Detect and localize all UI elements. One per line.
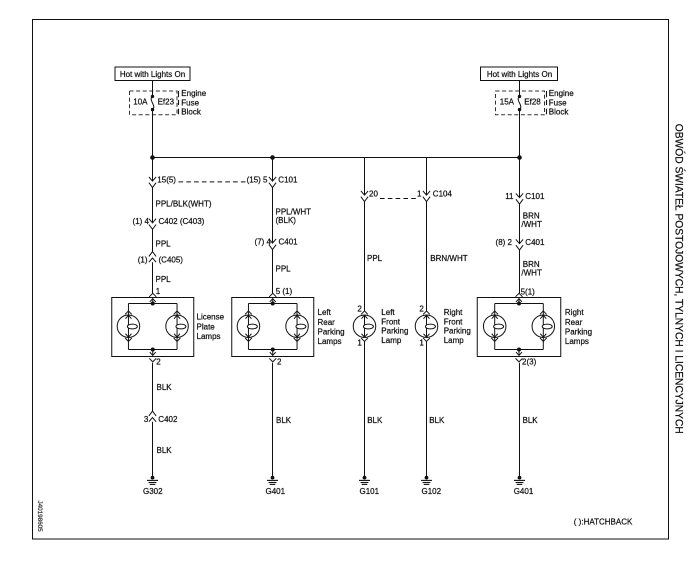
svg-text:Left: Left xyxy=(381,308,395,317)
svg-text:2: 2 xyxy=(277,358,282,367)
svg-text:(7) 4: (7) 4 xyxy=(255,237,272,246)
svg-text:Rear: Rear xyxy=(565,318,583,327)
svg-text:Engine: Engine xyxy=(181,89,206,98)
svg-text:15(5): 15(5) xyxy=(157,175,176,184)
svg-text:OBWÓD ŚWIATEŁ POSTOJOWYCH, TYL: OBWÓD ŚWIATEŁ POSTOJOWYCH, TYLNYCH I LIC… xyxy=(673,124,686,434)
svg-text:C401: C401 xyxy=(279,237,299,246)
svg-text:G401: G401 xyxy=(514,487,534,496)
svg-text:C401: C401 xyxy=(525,238,545,247)
svg-text:2(3): 2(3) xyxy=(522,358,537,367)
svg-text:PPL: PPL xyxy=(156,275,172,284)
svg-text:PPL: PPL xyxy=(276,265,292,274)
svg-text:(15) 5: (15) 5 xyxy=(247,175,268,184)
svg-text:BLK: BLK xyxy=(367,416,383,425)
svg-text:BLK: BLK xyxy=(523,416,539,425)
svg-text:C101: C101 xyxy=(525,192,545,201)
svg-text:G101: G101 xyxy=(360,487,380,496)
svg-text:Ef28: Ef28 xyxy=(524,98,541,107)
svg-text:(8) 2: (8) 2 xyxy=(496,238,513,247)
svg-text:PPL: PPL xyxy=(367,254,383,263)
svg-text:PPL: PPL xyxy=(156,239,172,248)
svg-text:Lamps: Lamps xyxy=(197,332,221,341)
svg-text:BLK: BLK xyxy=(157,383,173,392)
svg-text:Parking: Parking xyxy=(381,327,408,336)
svg-text:BRN/WHT: BRN/WHT xyxy=(430,254,467,263)
svg-text:/WHT: /WHT xyxy=(521,220,542,229)
svg-text:(C405): (C405) xyxy=(159,255,184,264)
svg-text:1: 1 xyxy=(156,287,161,296)
svg-text:Fuse: Fuse xyxy=(549,98,567,107)
svg-text:2: 2 xyxy=(419,304,424,313)
svg-text:PPL/BLK(WHT): PPL/BLK(WHT) xyxy=(156,200,212,209)
svg-text:Parking: Parking xyxy=(318,327,345,336)
svg-text:PPL/WHT: PPL/WHT xyxy=(276,207,312,216)
svg-text:2: 2 xyxy=(357,304,362,313)
svg-text:(1) 4: (1) 4 xyxy=(133,217,150,226)
svg-text:G102: G102 xyxy=(422,487,442,496)
svg-text:Engine: Engine xyxy=(549,89,574,98)
svg-text:G302: G302 xyxy=(143,487,163,496)
svg-text:Front: Front xyxy=(381,317,400,326)
svg-text:5 (1): 5 (1) xyxy=(276,287,293,296)
svg-text:Lamp: Lamp xyxy=(444,336,465,345)
svg-text:Hot with Lights On: Hot with Lights On xyxy=(487,70,552,79)
svg-text:Block: Block xyxy=(181,107,202,116)
svg-text:G401: G401 xyxy=(266,487,286,496)
svg-text:3: 3 xyxy=(144,415,149,424)
svg-text:Front: Front xyxy=(444,317,463,326)
svg-text:(BLK): (BLK) xyxy=(276,216,297,225)
svg-text:License: License xyxy=(197,313,225,322)
svg-text:Parking: Parking xyxy=(565,328,592,337)
svg-text:Hot with Lights On: Hot with Lights On xyxy=(120,70,185,79)
svg-text:1: 1 xyxy=(417,189,422,198)
svg-text:BLK: BLK xyxy=(276,416,292,425)
svg-text:Right: Right xyxy=(565,308,584,317)
svg-text:Parking: Parking xyxy=(444,327,471,336)
svg-text:Ef23: Ef23 xyxy=(158,98,175,107)
svg-text:Left: Left xyxy=(318,308,332,317)
svg-text:BLK: BLK xyxy=(429,416,445,425)
svg-text:( ):HATCHBACK: ( ):HATCHBACK xyxy=(574,517,633,526)
svg-text:Plate: Plate xyxy=(197,322,216,331)
svg-text:C402: C402 xyxy=(158,415,178,424)
svg-text:2: 2 xyxy=(156,358,161,367)
svg-text:Lamp: Lamp xyxy=(381,336,402,345)
svg-text:15A: 15A xyxy=(500,98,515,107)
svg-text:J40198605: J40198605 xyxy=(36,501,43,533)
svg-text:10A: 10A xyxy=(133,98,148,107)
svg-text:Lamps: Lamps xyxy=(318,337,342,346)
svg-text:Rear: Rear xyxy=(318,318,336,327)
svg-text:C402 (C403): C402 (C403) xyxy=(159,217,205,226)
svg-text:(1): (1) xyxy=(138,255,148,264)
svg-text:1: 1 xyxy=(419,339,424,348)
svg-text:BLK: BLK xyxy=(157,446,173,455)
svg-text:1: 1 xyxy=(357,339,362,348)
svg-text:5(1): 5(1) xyxy=(521,288,536,297)
svg-text:11: 11 xyxy=(505,192,514,201)
svg-text:Fuse: Fuse xyxy=(181,98,199,107)
svg-text:C101: C101 xyxy=(278,176,298,185)
svg-text:/WHT: /WHT xyxy=(521,269,542,278)
svg-text:Right: Right xyxy=(444,308,463,317)
svg-text:Lamps: Lamps xyxy=(565,337,589,346)
svg-text:Block: Block xyxy=(549,107,570,116)
svg-text:C104: C104 xyxy=(433,190,453,199)
svg-text:20: 20 xyxy=(369,189,378,198)
